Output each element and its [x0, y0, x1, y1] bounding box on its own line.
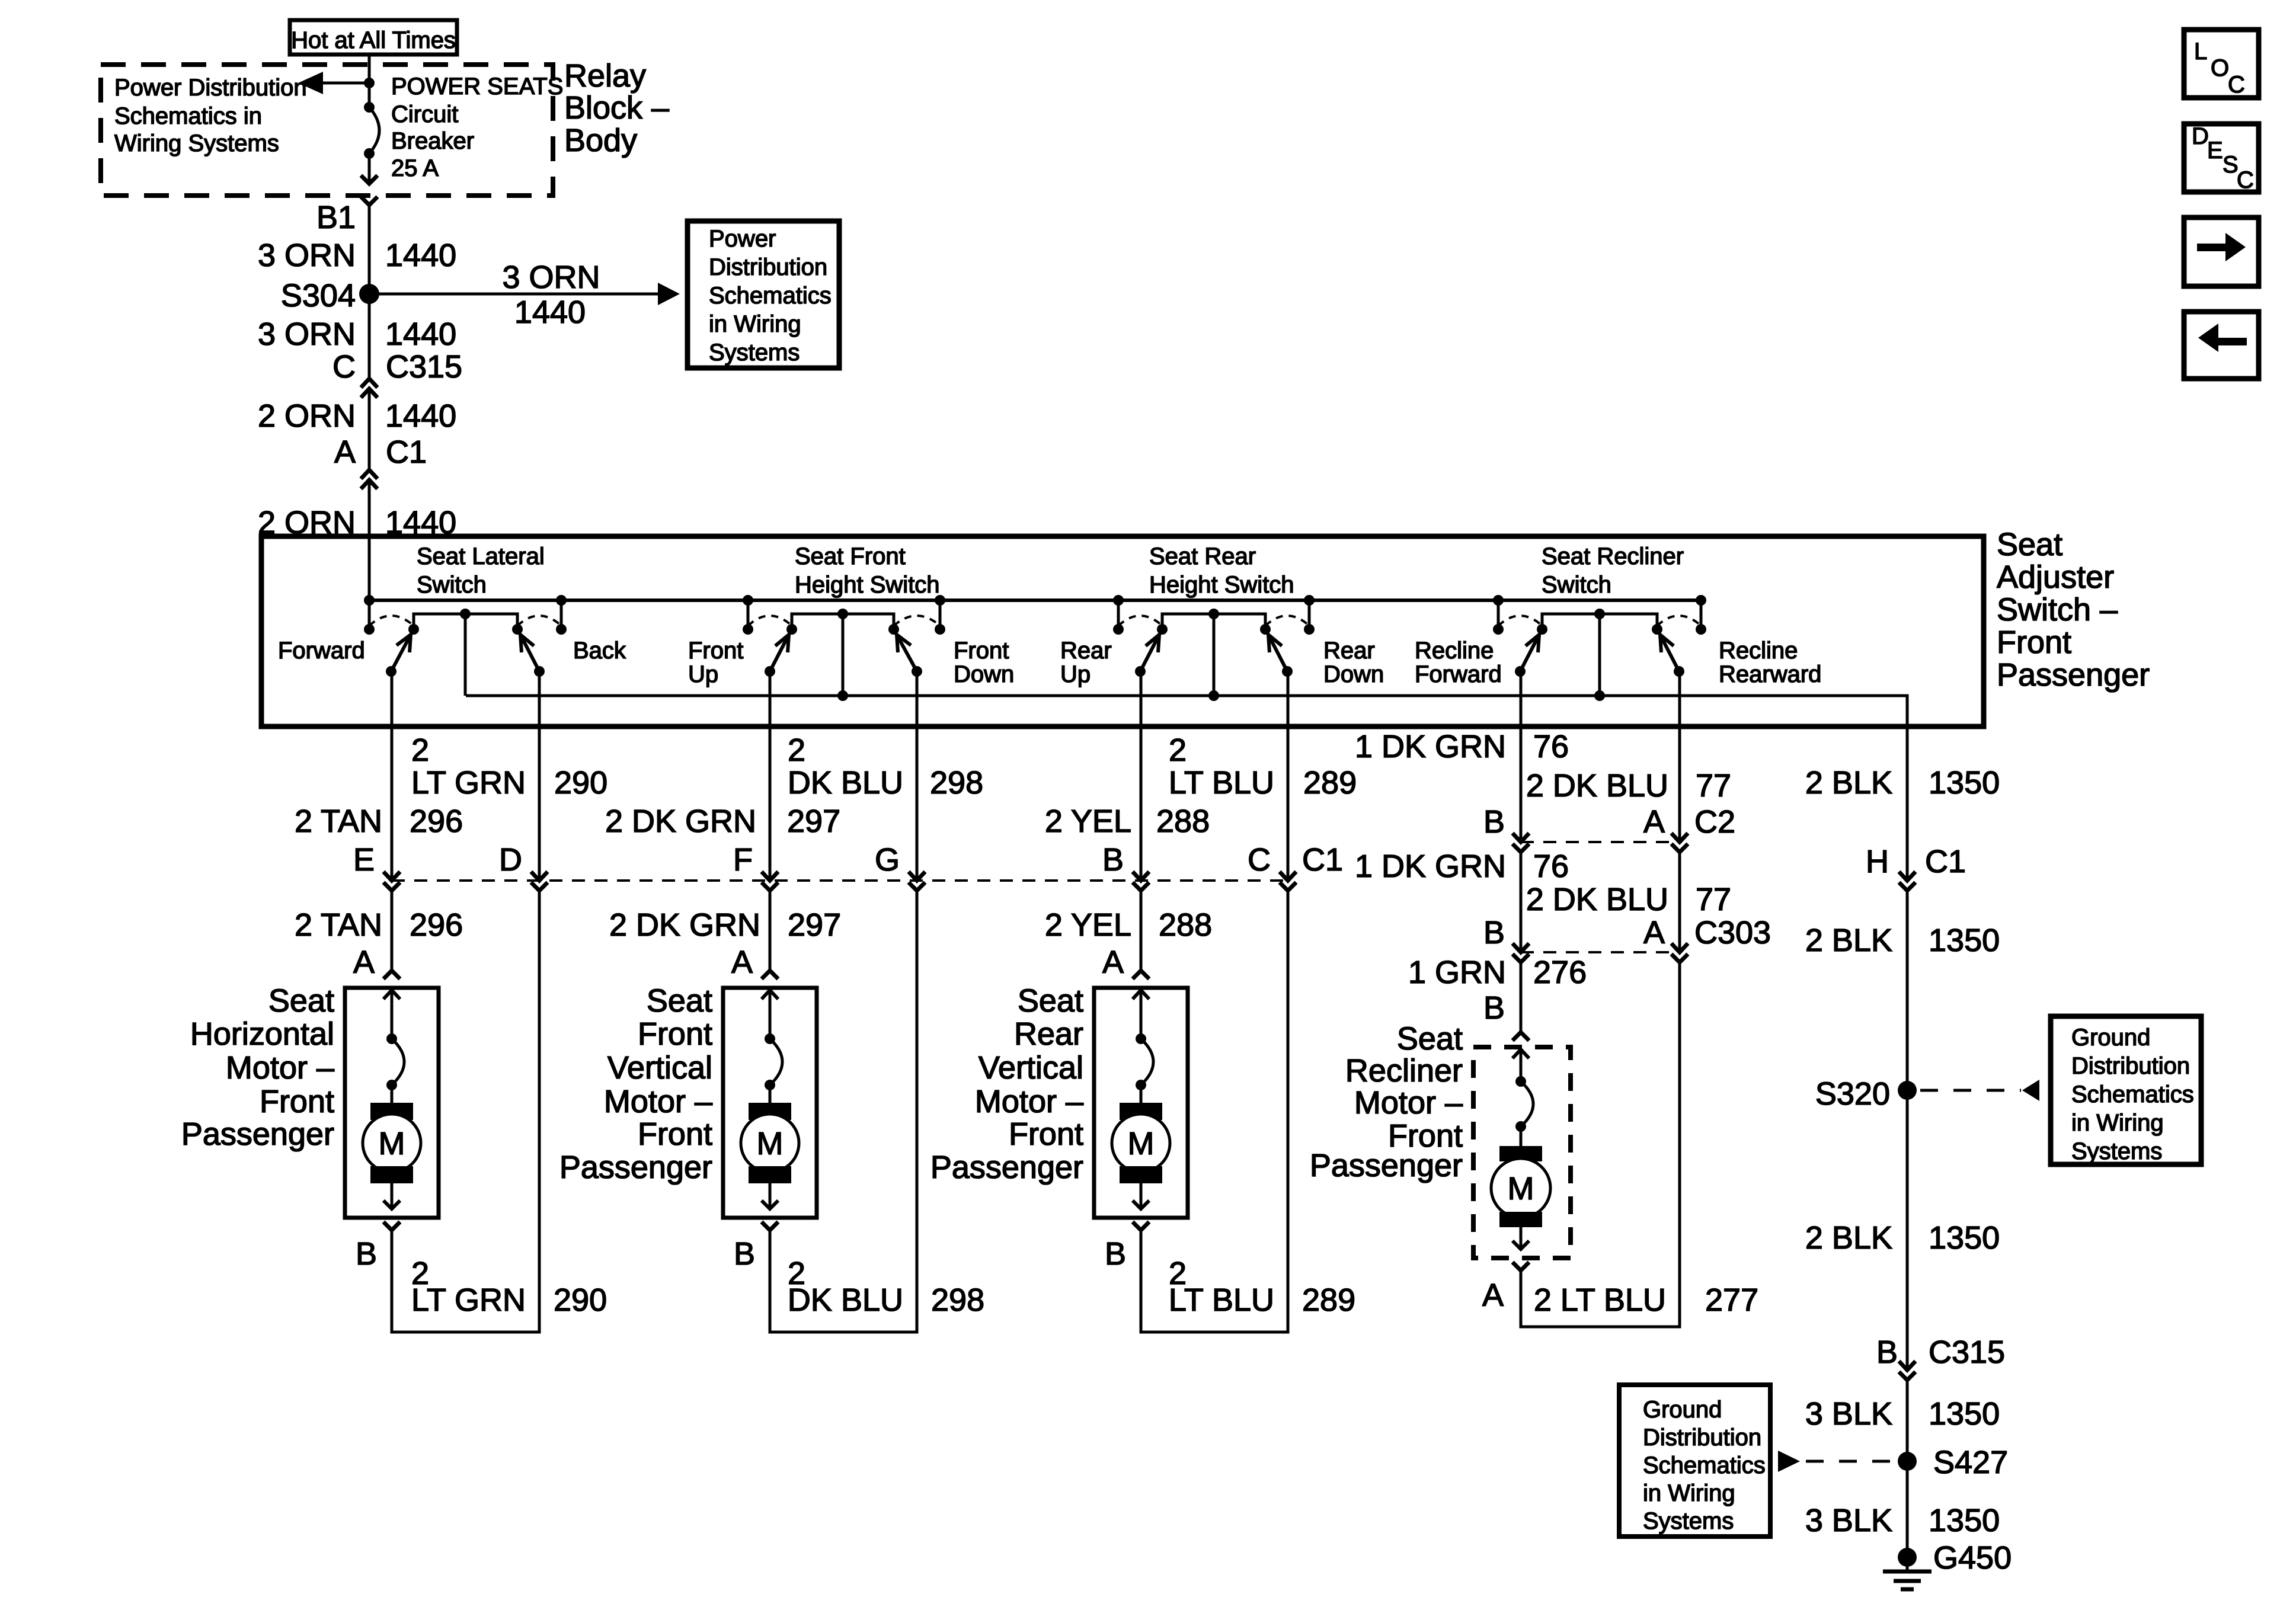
svg-text:2: 2 [788, 732, 805, 768]
svg-text:C: C [2228, 72, 2245, 98]
svg-text:S320: S320 [1815, 1076, 1890, 1112]
seat motor 1 box [345, 988, 439, 1218]
wire breaker output [368, 153, 371, 184]
svg-text:Wiring Systems: Wiring Systems [114, 130, 279, 156]
svg-text:Rear: Rear [1014, 1016, 1083, 1052]
svg-text:Rear: Rear [1323, 638, 1375, 664]
svg-text:1440: 1440 [514, 295, 586, 330]
svg-text:Seat Front: Seat Front [795, 543, 906, 569]
connector C303 dashed boundary [1521, 951, 1680, 953]
svg-text:Ground: Ground [2071, 1025, 2150, 1051]
bus wire inside switch [369, 598, 1701, 602]
svg-text:2 DK BLU: 2 DK BLU [1526, 768, 1668, 804]
svg-text:2 YEL: 2 YEL [1045, 804, 1131, 839]
svg-text:Systems: Systems [2071, 1138, 2162, 1164]
connector C2 cavity A [1671, 833, 1688, 842]
svg-text:289: 289 [1303, 765, 1357, 801]
recliner motor pin B [1512, 1032, 1529, 1041]
svg-text:Rear: Rear [1060, 638, 1112, 664]
connector C315 inline [361, 379, 378, 388]
svg-text:Vertical: Vertical [978, 1050, 1083, 1086]
svg-text:A: A [1643, 804, 1665, 840]
svg-text:3 BLK: 3 BLK [1805, 1503, 1892, 1538]
seat adjuster switch box [261, 536, 1984, 726]
svg-text:S304: S304 [281, 278, 356, 313]
svg-text:2 BLK: 2 BLK [1805, 765, 1892, 801]
svg-text:290: 290 [554, 765, 607, 801]
svg-text:2 LT BLU: 2 LT BLU [1534, 1282, 1666, 1318]
svg-text:Front: Front [688, 638, 743, 664]
svg-text:297: 297 [787, 804, 840, 839]
wire 277 return loop [1521, 962, 1680, 1327]
svg-text:1440: 1440 [385, 398, 456, 434]
svg-text:3 ORN: 3 ORN [258, 238, 356, 273]
svg-text:Seat: Seat [647, 983, 712, 1019]
motor 1 output wire [391, 1183, 394, 1209]
svg-text:E: E [2207, 137, 2223, 164]
svg-text:C2: C2 [1694, 804, 1735, 840]
svg-text:2 DK GRN: 2 DK GRN [605, 804, 756, 839]
svg-text:B: B [1483, 915, 1505, 950]
svg-text:B: B [1876, 1334, 1898, 1370]
wire 76 from recline forward pivot [1520, 671, 1523, 842]
svg-text:Height Switch: Height Switch [1149, 572, 1294, 598]
wire feed from Hot at All Times [368, 55, 371, 107]
svg-text:Motor –: Motor – [604, 1084, 712, 1119]
svg-text:Back: Back [573, 638, 626, 664]
motor 2 pin B [762, 1222, 778, 1230]
svg-text:C1: C1 [1925, 844, 1966, 879]
svg-text:Systems: Systems [1643, 1508, 1734, 1534]
svg-text:Schematics in: Schematics in [114, 103, 262, 129]
svg-text:Passenger: Passenger [1310, 1148, 1463, 1183]
svg-text:B1: B1 [316, 200, 356, 235]
svg-text:289: 289 [1302, 1282, 1355, 1318]
svg-text:LT BLU: LT BLU [1169, 1282, 1274, 1318]
connector C2 dashed boundary [1521, 841, 1680, 843]
svg-text:Recline: Recline [1415, 638, 1494, 664]
wire segment S304 to C315 [368, 294, 371, 379]
svg-text:Circuit: Circuit [391, 101, 458, 127]
connector C1 cavity C [1280, 872, 1296, 881]
svg-text:Schematics: Schematics [709, 283, 832, 309]
ground G450 [1898, 1548, 1917, 1567]
svg-text:Passenger: Passenger [559, 1150, 712, 1185]
svg-text:2 TAN: 2 TAN [295, 804, 382, 839]
svg-text:2 BLK: 2 BLK [1805, 1220, 1892, 1256]
svg-text:277: 277 [1705, 1282, 1758, 1318]
svg-text:Systems: Systems [709, 340, 800, 366]
wire 3 ORN 1440 branch to power distribution [369, 293, 658, 296]
svg-text:2: 2 [411, 732, 429, 768]
svg-text:Down: Down [954, 661, 1014, 687]
svg-text:Switch –: Switch – [1997, 592, 2118, 628]
wire from switch pivot to C1 cavity F [769, 671, 772, 881]
wire segment C1 to switch [368, 480, 371, 600]
svg-text:2 BLK: 2 BLK [1805, 923, 1892, 958]
svg-text:B: B [356, 1236, 377, 1272]
legend box DESC [2184, 124, 2259, 192]
wire ground C315 to G450 [1906, 1380, 1909, 1557]
svg-text:77: 77 [1696, 768, 1731, 804]
svg-text:296: 296 [410, 804, 463, 839]
svg-text:Power Distribution: Power Distribution [114, 75, 307, 101]
recliner motor internal circuit breaker [1512, 1049, 1529, 1058]
svg-text:S: S [2223, 152, 2239, 178]
legend box LOC [2184, 30, 2259, 98]
svg-text:2 YEL: 2 YEL [1045, 907, 1131, 943]
svg-text:B: B [734, 1236, 755, 1272]
splice S304 [359, 284, 379, 304]
svg-text:1350: 1350 [1929, 1220, 2000, 1256]
svg-text:1 DK GRN: 1 DK GRN [1355, 849, 1506, 884]
svg-text:Body: Body [564, 123, 637, 158]
svg-text:H: H [1866, 844, 1889, 879]
svg-text:Vertical: Vertical [607, 1050, 712, 1086]
box Ground Distribution Schematics left [1619, 1385, 1770, 1537]
svg-text:B: B [1102, 842, 1124, 878]
seat recliner motor box [1473, 1047, 1571, 1258]
svg-text:2 DK GRN: 2 DK GRN [609, 907, 760, 943]
connector B1 at relay block exit [361, 175, 378, 184]
svg-text:A: A [1482, 1278, 1504, 1313]
svg-text:Height Switch: Height Switch [795, 572, 940, 598]
recliner motor output wire [1520, 1227, 1523, 1249]
svg-text:Breaker: Breaker [391, 128, 474, 154]
svg-text:Front: Front [1009, 1116, 1083, 1152]
svg-text:DK BLU: DK BLU [788, 765, 903, 801]
svg-text:Seat: Seat [1018, 983, 1083, 1019]
svg-text:Front: Front [638, 1016, 712, 1052]
ground bus wire inside switch box [466, 696, 1907, 881]
svg-text:E: E [353, 842, 375, 878]
wire ground C1 to S320 [1906, 891, 1909, 1370]
svg-text:in Wiring: in Wiring [2071, 1110, 2164, 1136]
svg-text:Forward: Forward [278, 638, 365, 664]
svg-text:2 DK BLU: 2 DK BLU [1526, 882, 1668, 917]
svg-text:Motor –: Motor – [226, 1050, 334, 1086]
wire 77 from recline rearward pivot [1678, 671, 1681, 842]
splice S427 [1898, 1452, 1917, 1471]
svg-text:G: G [875, 842, 900, 878]
svg-text:Motor –: Motor – [1354, 1085, 1463, 1121]
splice S320 [1898, 1081, 1917, 1100]
svg-text:Front: Front [638, 1116, 712, 1152]
svg-text:A: A [353, 945, 375, 980]
svg-text:Front: Front [954, 638, 1009, 664]
svg-text:Switch: Switch [1542, 572, 1611, 598]
box Ground Distribution Schematics right [2051, 1016, 2201, 1164]
svg-text:Relay: Relay [564, 58, 646, 94]
box Power Distribution Schematics in Wiring Systems [687, 221, 839, 368]
svg-text:Schematics: Schematics [2071, 1081, 2194, 1108]
motor 3 pin B [1133, 1222, 1149, 1230]
svg-text:25 A: 25 A [391, 155, 439, 181]
svg-text:276: 276 [1533, 955, 1587, 990]
wire 276 to recliner motor [1520, 962, 1523, 1032]
wire from switch pivot to C1 cavity D [538, 671, 541, 881]
svg-text:2 TAN: 2 TAN [295, 907, 382, 943]
legend box next arrow [2184, 217, 2259, 286]
svg-text:C315: C315 [1929, 1334, 2005, 1370]
circuit breaker POWER SEATS 25 A [364, 102, 375, 113]
svg-text:DK BLU: DK BLU [788, 1282, 903, 1318]
motor 1 pin B [383, 1222, 400, 1230]
svg-text:Down: Down [1323, 661, 1384, 687]
svg-text:Front: Front [1997, 625, 2071, 660]
svg-text:Distribution: Distribution [1643, 1425, 1761, 1451]
svg-text:3 BLK: 3 BLK [1805, 1396, 1892, 1432]
svg-text:Recliner: Recliner [1345, 1053, 1463, 1089]
motor 2 internal circuit breaker [762, 990, 778, 999]
svg-text:O: O [2211, 55, 2229, 81]
svg-text:M: M [1128, 1126, 1155, 1161]
connector C2 cavity B [1512, 833, 1529, 842]
svg-text:C1: C1 [1302, 842, 1343, 878]
svg-text:C1: C1 [386, 434, 427, 470]
svg-text:A: A [1102, 945, 1124, 980]
svg-text:Distribution: Distribution [709, 254, 827, 280]
motor 2 armature [749, 1103, 791, 1120]
svg-text:288: 288 [1159, 907, 1212, 943]
reference arrow to ground distribution [1920, 1089, 2021, 1092]
svg-text:298: 298 [930, 765, 983, 801]
connector C303 cavity A [1671, 943, 1688, 952]
connector C1 cavity B [1133, 872, 1149, 881]
motor 1 armature [370, 1103, 413, 1120]
svg-text:76: 76 [1533, 849, 1569, 884]
svg-text:77: 77 [1696, 882, 1731, 917]
wire 76 C2 to C303 [1520, 852, 1523, 952]
svg-text:C: C [2237, 167, 2254, 193]
svg-text:Seat: Seat [1997, 527, 2062, 562]
wire from switch pivot to C1 cavity C [1287, 671, 1290, 881]
svg-text:1440: 1440 [385, 238, 456, 273]
wire from switch pivot to C1 cavity E [391, 671, 394, 881]
svg-text:C315: C315 [386, 349, 462, 385]
label box Hot at All Times [290, 20, 457, 55]
svg-text:B: B [1483, 804, 1505, 840]
svg-text:Hot at All Times: Hot at All Times [291, 27, 456, 53]
seat rear height switch contacts and levers [1113, 595, 1315, 701]
svg-text:Switch: Switch [417, 572, 487, 598]
motor 3 armature [1120, 1103, 1162, 1120]
svg-text:Distribution: Distribution [2071, 1053, 2190, 1079]
svg-text:C303: C303 [1694, 915, 1771, 950]
svg-text:G450: G450 [1933, 1540, 2012, 1576]
svg-text:Seat: Seat [268, 983, 334, 1019]
svg-text:1350: 1350 [1929, 1396, 2000, 1432]
seat front height switch contacts and levers [743, 595, 945, 701]
connector C1 inline [361, 470, 378, 479]
svg-text:Up: Up [688, 661, 718, 687]
svg-text:C: C [1248, 842, 1271, 878]
motor 3 output wire [1140, 1183, 1143, 1209]
svg-text:in Wiring: in Wiring [709, 311, 801, 337]
svg-text:Seat Recliner: Seat Recliner [1542, 543, 1684, 569]
svg-text:LT GRN: LT GRN [411, 1282, 526, 1318]
seat motor 3 box [1094, 988, 1188, 1218]
wire return loop motor 1 [392, 891, 539, 1332]
svg-text:LT BLU: LT BLU [1169, 765, 1274, 801]
svg-text:Ground: Ground [1643, 1397, 1722, 1423]
svg-text:297: 297 [788, 907, 841, 943]
svg-text:Passenger: Passenger [1997, 657, 2150, 693]
svg-text:Seat: Seat [1397, 1021, 1463, 1057]
relay block dashed box [101, 65, 553, 196]
connector C1 cavity D [531, 872, 548, 881]
svg-text:LT GRN: LT GRN [411, 765, 526, 801]
wire 1350 ground from switch box [1906, 726, 1909, 881]
svg-text:Forward: Forward [1415, 661, 1502, 687]
svg-text:296: 296 [410, 907, 463, 943]
svg-text:A: A [1643, 915, 1665, 950]
svg-text:Adjuster: Adjuster [1997, 559, 2114, 595]
wire from switch pivot to C1 cavity B [1140, 671, 1143, 881]
svg-text:D: D [499, 842, 522, 878]
svg-text:D: D [2192, 123, 2209, 149]
svg-text:1350: 1350 [1929, 923, 2000, 958]
svg-text:Rearward: Rearward [1719, 661, 1821, 687]
svg-text:M: M [757, 1126, 784, 1161]
svg-text:M: M [1508, 1171, 1534, 1206]
svg-text:1440: 1440 [385, 316, 456, 352]
svg-text:B: B [1105, 1236, 1126, 1272]
connector C1 cavity E [383, 872, 400, 881]
svg-text:POWER SEATS: POWER SEATS [391, 73, 563, 100]
connector C303 cavity B [1512, 943, 1529, 952]
svg-text:Power: Power [709, 226, 776, 252]
connector C1 cavity F [762, 872, 778, 881]
svg-text:290: 290 [554, 1282, 607, 1318]
svg-text:3 ORN: 3 ORN [258, 316, 356, 352]
svg-text:Seat Rear: Seat Rear [1149, 543, 1256, 569]
svg-text:298: 298 [931, 1282, 984, 1318]
reference arrow from ground distribution to S427 [1778, 1451, 1800, 1472]
svg-text:76: 76 [1533, 729, 1569, 764]
svg-text:C: C [332, 349, 356, 385]
recliner motor armature [1499, 1146, 1542, 1161]
svg-text:288: 288 [1156, 804, 1210, 839]
wire return loop motor 2 [770, 891, 917, 1332]
motor 1 internal circuit breaker [383, 990, 400, 999]
svg-text:Recline: Recline [1719, 638, 1798, 664]
connector C1 dashed boundary [392, 879, 1288, 882]
recliner motor pin A [1512, 1262, 1529, 1270]
connector C1 cavity G [909, 872, 925, 881]
wire return loop motor 3 [1141, 891, 1288, 1332]
svg-text:L: L [2194, 39, 2207, 65]
arrow to power distribution schematics [323, 82, 369, 85]
wire 77 C2 to C303 [1678, 852, 1681, 952]
svg-text:F: F [733, 842, 753, 878]
svg-text:1 DK GRN: 1 DK GRN [1355, 729, 1506, 764]
svg-text:Passenger: Passenger [930, 1150, 1083, 1185]
svg-text:S427: S427 [1933, 1445, 2008, 1480]
svg-text:3 ORN: 3 ORN [502, 260, 600, 295]
svg-text:1350: 1350 [1929, 765, 2000, 801]
svg-text:Horizontal: Horizontal [190, 1016, 334, 1052]
svg-text:Block –: Block – [564, 90, 669, 126]
svg-text:1 GRN: 1 GRN [1408, 955, 1506, 990]
seat lateral switch contacts and levers [364, 595, 567, 696]
svg-text:M: M [379, 1126, 405, 1161]
motor 3 internal circuit breaker [1133, 990, 1149, 999]
seat recliner switch contacts and levers [1493, 595, 1706, 701]
svg-text:Passenger: Passenger [181, 1116, 334, 1152]
svg-text:2: 2 [1169, 732, 1187, 768]
seat motor 2 box [723, 988, 817, 1218]
svg-text:B: B [1483, 990, 1505, 1026]
svg-text:1350: 1350 [1929, 1503, 2000, 1538]
motor 2 output wire [769, 1183, 772, 1209]
svg-text:Up: Up [1060, 661, 1091, 687]
svg-text:A: A [731, 945, 753, 980]
legend box previous arrow [2184, 312, 2259, 379]
wire segment C315 to C1 [368, 389, 371, 470]
wire from switch pivot to C1 cavity G [916, 671, 919, 881]
node junction at breaker feed [364, 78, 375, 88]
wire 1440 segment to S304 [368, 205, 371, 294]
svg-text:A: A [334, 434, 356, 470]
svg-text:Seat Lateral: Seat Lateral [417, 543, 545, 569]
svg-text:2 ORN: 2 ORN [258, 398, 356, 434]
svg-text:Front: Front [260, 1084, 334, 1119]
svg-text:Motor –: Motor – [975, 1084, 1083, 1119]
svg-text:in Wiring: in Wiring [1643, 1480, 1735, 1506]
svg-text:Schematics: Schematics [1643, 1452, 1766, 1478]
